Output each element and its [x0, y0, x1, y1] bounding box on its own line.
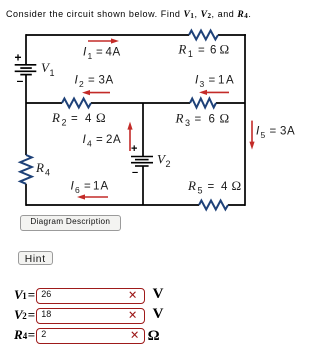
- svg-text:=: =: [71, 113, 78, 125]
- Hint button: [18, 251, 53, 265]
- svg-text:=: =: [270, 125, 277, 137]
- label I4 = 2 A: [83, 132, 122, 149]
- current arrow I3 (left): [199, 90, 229, 95]
- svg-text:3: 3: [200, 79, 205, 89]
- current arrow I5 (down): [249, 121, 254, 150]
- svg-text:6: 6: [209, 114, 215, 126]
- label I1 = 4 A: [83, 45, 121, 62]
- svg-text:R: R: [187, 178, 196, 193]
- svg-text:R: R: [51, 110, 60, 125]
- label R5 = 4 ohm: [187, 178, 241, 196]
- svg-text:6: 6: [75, 185, 80, 195]
- svg-text:3: 3: [280, 125, 286, 137]
- wire middle horizontal R2 to R3: [91, 102, 190, 104]
- svg-text:2: 2: [79, 79, 84, 89]
- answer row V2: [0, 308, 326, 328]
- svg-text:1: 1: [88, 51, 93, 61]
- answer row V1: [0, 288, 326, 308]
- wire middle vertical junction to battery V2: [142, 103, 144, 157]
- svg-text:4: 4: [85, 113, 92, 125]
- svg-text:2: 2: [166, 159, 171, 169]
- title: [6, 9, 251, 20]
- svg-text:2: 2: [62, 118, 67, 128]
- svg-text:Ω: Ω: [96, 110, 106, 125]
- svg-text:A: A: [113, 47, 121, 59]
- resistor R3: [190, 99, 216, 108]
- battery V1: [15, 65, 37, 75]
- svg-text:5: 5: [261, 130, 266, 140]
- svg-text:+: +: [131, 143, 137, 155]
- resistor R5: [199, 201, 228, 210]
- svg-text:1: 1: [93, 181, 99, 193]
- svg-text:I: I: [83, 132, 87, 146]
- wire middle horizontal left to R2: [26, 102, 62, 104]
- svg-text:R: R: [35, 160, 44, 175]
- svg-text:I: I: [256, 123, 260, 137]
- Diagram Description button: [20, 215, 121, 231]
- svg-text:R: R: [177, 42, 186, 57]
- wire left vertical battery V1 to R4: [25, 75, 27, 155]
- svg-text:1: 1: [188, 49, 193, 59]
- label I2 = 3 A: [75, 73, 114, 90]
- current arrow I2 (left): [82, 90, 110, 95]
- svg-text:=: =: [198, 45, 205, 57]
- svg-text:4: 4: [45, 168, 50, 178]
- wire left vertical R4 to bottom: [25, 184, 27, 206]
- svg-text:A: A: [101, 181, 109, 193]
- svg-text:=: =: [209, 75, 216, 87]
- svg-text:=: =: [96, 134, 103, 146]
- label R2 = 4 ohm: [51, 110, 106, 128]
- label I5 = 3 A: [256, 123, 295, 140]
- wire R5 to bottom-right corner: [228, 204, 245, 206]
- svg-text:=: =: [84, 181, 91, 193]
- wire left vertical top (to battery V1): [25, 34, 27, 65]
- svg-text:=: =: [88, 75, 95, 87]
- label R3 = 6 ohm: [175, 111, 230, 129]
- wire middle horizontal R3 to right: [216, 102, 245, 104]
- svg-text:2: 2: [106, 134, 112, 146]
- wire right vertical: [244, 34, 246, 206]
- label I6 = 1 A: [71, 179, 109, 196]
- resistor R1: [189, 31, 218, 40]
- battery V2: [131, 157, 153, 167]
- svg-text:Ω: Ω: [220, 111, 230, 126]
- svg-text:–: –: [132, 167, 138, 179]
- svg-text:6: 6: [210, 45, 216, 57]
- current arrow I6 (left): [77, 194, 108, 199]
- svg-text:–: –: [17, 73, 24, 87]
- svg-text:Ω: Ω: [232, 178, 242, 193]
- svg-text:1: 1: [218, 75, 224, 87]
- svg-text:4: 4: [87, 139, 92, 149]
- wire bottom-left to R5: [26, 204, 199, 206]
- svg-text:3: 3: [99, 75, 105, 87]
- svg-text:4: 4: [106, 47, 113, 59]
- svg-text:=: =: [96, 47, 103, 59]
- svg-text:I: I: [83, 45, 87, 59]
- resistor R4: [20, 155, 32, 184]
- svg-text:4: 4: [221, 181, 228, 193]
- svg-text:=: =: [195, 114, 202, 126]
- svg-text:A: A: [287, 125, 295, 137]
- svg-text:I: I: [195, 73, 199, 87]
- svg-text:=: =: [208, 181, 215, 193]
- current arrow I4 (up): [127, 122, 132, 151]
- answer row R4: [0, 328, 326, 348]
- svg-text:3: 3: [185, 118, 190, 128]
- resistor R2: [62, 99, 91, 108]
- svg-text:+: +: [15, 51, 22, 65]
- wire top-left to R1: [26, 34, 189, 36]
- svg-text:Ω: Ω: [220, 42, 230, 57]
- svg-text:A: A: [226, 75, 234, 87]
- svg-text:I: I: [71, 179, 75, 193]
- svg-text:R: R: [175, 111, 184, 126]
- wire R1 to top-right corner: [218, 34, 246, 36]
- label R1 = 6 ohm: [177, 42, 229, 60]
- svg-text:5: 5: [198, 186, 203, 196]
- label I3 = 1 A: [195, 73, 234, 90]
- svg-text:1: 1: [50, 68, 55, 78]
- svg-text:I: I: [75, 73, 79, 87]
- svg-text:A: A: [106, 75, 114, 87]
- svg-text:A: A: [113, 134, 121, 146]
- wire middle vertical battery V2 to bottom: [142, 166, 144, 205]
- current arrow I1 (right): [88, 38, 119, 43]
